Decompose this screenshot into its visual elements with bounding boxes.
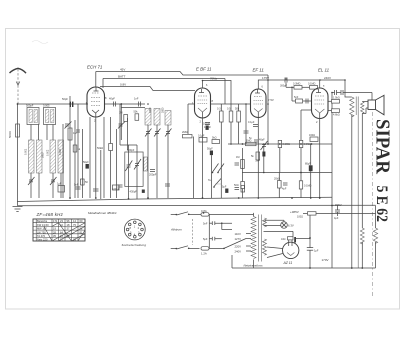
- wire top resistor row: [286, 78, 310, 88]
- wire mid columns: [111, 104, 138, 199]
- svg-text:1μF: 1μF: [314, 250, 319, 253]
- wire cathode riser: [309, 215, 311, 268]
- svg-text:1.2A: 1.2A: [201, 251, 207, 255]
- svg-text:5 E 62: 5 E 62: [373, 186, 390, 223]
- capacitor 40pF: [109, 97, 116, 107]
- resistor 50k mid: [109, 144, 113, 151]
- svg-text:160Ω: 160Ω: [309, 134, 315, 137]
- svg-text:0.5: 0.5: [227, 108, 231, 111]
- label 5000 coil: [42, 152, 45, 158]
- brand text 5E62: [373, 186, 390, 223]
- bus chassis: [18, 197, 333, 201]
- pilot lamp: [281, 220, 294, 228]
- fuse 0.8A: [200, 209, 254, 216]
- mains switch lower: [171, 246, 200, 250]
- resistor 0.1M top: [308, 83, 318, 90]
- resistor 30k: [97, 146, 103, 199]
- svg-text:240V: 240V: [235, 250, 242, 254]
- svg-text:500Ω: 500Ω: [8, 131, 12, 138]
- svg-text:50μF: 50μF: [83, 161, 89, 164]
- label EBF11: [196, 67, 212, 72]
- resistor 50k osc: [134, 111, 139, 121]
- svg-text:0.1MΩ: 0.1MΩ: [304, 185, 312, 188]
- wire column x63: [62, 124, 64, 198]
- wire transformer top: [345, 80, 352, 97]
- svg-text:50kΩ: 50kΩ: [97, 146, 103, 150]
- coil winding L5: [47, 140, 56, 173]
- capacitor bars mid2: [235, 188, 240, 190]
- resistor box mid: [241, 186, 245, 193]
- label +365V: [333, 203, 342, 207]
- svg-text:430pF: 430pF: [130, 190, 138, 194]
- svg-text:SIPAR: SIPAR: [372, 119, 394, 174]
- label 0.002 coil: [59, 148, 62, 155]
- capacitor 0.1 el: [341, 90, 343, 95]
- svg-text:5000: 5000: [42, 152, 45, 158]
- svg-text:LW 750: LW 750: [37, 230, 46, 234]
- svg-text:5nF: 5nF: [294, 96, 299, 99]
- tube ECH71: [86, 87, 108, 123]
- label +385V: [290, 210, 299, 214]
- resistor 0.3M lower: [299, 173, 311, 199]
- svg-text:5μF: 5μF: [203, 237, 208, 241]
- resistor 1k cathode: [73, 145, 81, 152]
- wire el11 left column: [301, 110, 312, 140]
- svg-text:1nF: 1nF: [134, 97, 139, 101]
- svg-text:127V: 127V: [235, 237, 242, 241]
- svg-text:2MΩ: 2MΩ: [182, 130, 188, 134]
- capacitor 100pF mid: [112, 185, 123, 191]
- resistor 2M: [182, 130, 192, 138]
- capacitor 80uF: [305, 162, 313, 171]
- wire column x90: [89, 117, 91, 198]
- box 4600: [328, 109, 340, 117]
- wire winding tap mid: [264, 231, 294, 236]
- wire ebf columns: [221, 104, 246, 144]
- capacitor 50uF dark: [83, 161, 89, 169]
- trimmer capacitor osc3: [165, 129, 172, 137]
- svg-text:100μF: 100μF: [203, 123, 211, 126]
- label pin el: [323, 85, 325, 88]
- mains switch upper: [171, 212, 200, 216]
- trimmer arrow left: [65, 122, 72, 129]
- wire EL11 bottom: [319, 119, 321, 199]
- voltage tap 220V: [235, 245, 252, 249]
- output transformer primary: [350, 97, 354, 117]
- wire ECH71 right: [105, 103, 146, 105]
- trimmer capacitor: [28, 177, 35, 185]
- bus ground: [18, 202, 376, 206]
- box screen resistor: [328, 97, 340, 104]
- wire el11 right column: [331, 93, 333, 269]
- wire osc columns: [148, 125, 168, 198]
- tube socket diagram: [124, 219, 145, 240]
- wire column x104: [103, 117, 105, 198]
- wire column x127.5: [127, 118, 129, 150]
- svg-text:0.1MΩ: 0.1MΩ: [308, 83, 316, 86]
- label ZF: [36, 212, 64, 217]
- output transformer core: [356, 97, 358, 269]
- wire lower rail: [242, 172, 332, 174]
- switch link dashed: [192, 219, 194, 245]
- svg-text:45V: 45V: [120, 68, 125, 72]
- svg-text:MW 187: MW 187: [37, 227, 47, 231]
- voltage tap 127V: [235, 237, 252, 241]
- wire heater upper: [265, 220, 284, 222]
- antenna: [10, 68, 27, 104]
- junction dots wire104: [17, 79, 346, 199]
- oscillator coil 3: [165, 111, 171, 126]
- svg-text:0.5MΩ: 0.5MΩ: [304, 143, 312, 146]
- svg-text:1.5kΩ: 1.5kΩ: [333, 97, 340, 100]
- wire input node: [18, 103, 88, 105]
- svg-text:4μF: 4μF: [334, 217, 339, 220]
- capacitor 10nF ef bottom: [249, 137, 258, 142]
- resistor 5k ef: [251, 152, 260, 160]
- capacitor 5nF mains1: [203, 214, 232, 225]
- svg-text:BATT: BATT: [118, 75, 126, 79]
- voltage tap 240V: [235, 250, 252, 254]
- label pin ef: [262, 86, 264, 89]
- power transformer secondary: [263, 218, 267, 255]
- resistor 0.3M: [217, 108, 223, 123]
- svg-text:0.2MΩ: 0.2MΩ: [283, 143, 291, 146]
- svg-text:50pF: 50pF: [62, 97, 68, 101]
- capacitor 300pF: [280, 78, 288, 88]
- svg-text:ECH 71: ECH 71: [87, 65, 103, 70]
- svg-text:1M: 1M: [119, 112, 122, 115]
- resistor 20k lower: [274, 173, 281, 199]
- svg-text:5kΩ: 5kΩ: [212, 137, 217, 140]
- resistor 50k: [235, 108, 240, 123]
- wire EF11 bottom: [257, 118, 259, 199]
- wire EBF11 bottom: [202, 118, 204, 198]
- wire column x82.5: [82, 129, 84, 198]
- bus bottom: [232, 255, 376, 268]
- svg-text:80μF: 80μF: [305, 162, 311, 165]
- capacitor 1uF: [57, 182, 65, 193]
- capacitor 100pF ebf: [204, 123, 212, 130]
- resistor hum balance: [281, 237, 293, 241]
- oscillator coil 2: [154, 109, 160, 126]
- coil box L1: [26, 104, 39, 125]
- svg-text:Metallrahmen 38kΩ/1: Metallrahmen 38kΩ/1: [88, 211, 117, 215]
- tube EF11: [251, 89, 267, 118]
- wire antenna lead down: [17, 104, 19, 202]
- svg-text:220V: 220V: [235, 245, 242, 249]
- faint pencil smudge: [32, 41, 48, 44]
- svg-text:Allstrom: Allstrom: [170, 228, 182, 232]
- capacitor 50uF dark2: [207, 148, 213, 156]
- capacitor gnd3: [165, 184, 170, 186]
- resistor 20k top: [293, 83, 302, 90]
- resistor 50ohm: [234, 173, 244, 199]
- field coil resistor: [360, 228, 364, 268]
- capacitor 10nF: [244, 131, 249, 133]
- svg-text:40pF: 40pF: [259, 139, 265, 142]
- svg-text:170V: 170V: [322, 258, 329, 262]
- capacitor 2nF dark: [256, 152, 266, 163]
- box 0.1uF: [198, 135, 207, 143]
- trimmer capacitor: [50, 177, 57, 185]
- wire x193.5 drop: [193, 137, 195, 199]
- svg-text:110V: 110V: [235, 232, 241, 236]
- label 2000 osc: [149, 107, 152, 113]
- wire cap junction right: [221, 222, 232, 229]
- svg-text:0.1μF: 0.1μF: [248, 121, 255, 124]
- coil winding L4: [37, 140, 43, 173]
- dashed fold line: [371, 112, 373, 296]
- wire x213.5 drop: [210, 155, 212, 198]
- speaker: [368, 95, 384, 115]
- label pin7 ebf: [206, 84, 208, 87]
- svg-text:0.3: 0.3: [217, 108, 221, 111]
- capacitor 50+50: [81, 179, 89, 185]
- voltage tap 110V: [235, 232, 252, 236]
- label Netztransform: [244, 264, 264, 268]
- svg-text:7.5V: 7.5V: [268, 98, 274, 102]
- resistor 1M osc: [119, 112, 128, 122]
- IF transformer 2: [125, 148, 147, 194]
- wire EL11 grid: [303, 99, 312, 104]
- svg-text:240V: 240V: [324, 76, 331, 80]
- svg-text:Netz 220: Netz 220: [37, 238, 48, 242]
- wire speaker feed: [332, 93, 372, 101]
- label AZ11: [283, 261, 293, 265]
- svg-text:Sockelschaltung: Sockelschaltung: [122, 243, 147, 247]
- label 170V: [322, 258, 329, 262]
- wire columns left: [31, 96, 78, 198]
- resistor 160ohm cathode: [309, 134, 318, 142]
- resistor bleeder right: [373, 206, 377, 269]
- wire bplus verticals: [243, 143, 311, 198]
- svg-text:4.6kΩ: 4.6kΩ: [333, 114, 340, 117]
- capacitor 1uF left gnd: [93, 189, 99, 191]
- svg-text:0.1μF: 0.1μF: [198, 135, 205, 138]
- svg-text:6.3V: 6.3V: [288, 224, 294, 228]
- svg-text:100Ω: 100Ω: [297, 216, 303, 219]
- tube EBF11: [192, 88, 214, 124]
- label EF11: [253, 68, 265, 73]
- label Sockelschaltung: [122, 243, 147, 247]
- bus 45V: [96, 68, 268, 76]
- capacitor 10pF: [134, 97, 141, 107]
- band switch lever 2: [213, 179, 221, 188]
- svg-text:Bereiche: Bereiche: [37, 219, 48, 223]
- svg-text:0.001: 0.001: [25, 148, 28, 155]
- resistor 0.5M: [227, 108, 233, 123]
- svg-text:TA 470: TA 470: [37, 234, 46, 238]
- svg-text:200pF: 200pF: [149, 173, 157, 177]
- capacitor 1uF az: [307, 248, 319, 253]
- resistor 50k h: [278, 140, 290, 147]
- tube EL11: [312, 88, 329, 124]
- svg-text:500pF: 500pF: [26, 104, 34, 108]
- svg-text:KW 13-50: KW 13-50: [37, 223, 49, 227]
- capacitor 5nF: [74, 183, 81, 190]
- svg-text:50μF: 50μF: [207, 148, 213, 151]
- svg-text:1μF: 1μF: [57, 182, 62, 186]
- wire column x75: [74, 120, 76, 198]
- svg-text:10Ω: 10Ω: [281, 238, 286, 241]
- wire EBF11 grid left: [188, 103, 195, 105]
- svg-text:1M: 1M: [236, 156, 239, 159]
- power transformer primary: [251, 213, 256, 268]
- power transformer core: [259, 215, 262, 262]
- box 10nF grid: [292, 87, 303, 103]
- capacitor 4uF lower: [282, 183, 288, 191]
- svg-text:0.8V: 0.8V: [120, 83, 126, 87]
- coil box L2: [43, 104, 56, 125]
- resistor 3k v: [259, 139, 268, 151]
- coil winding L3: [25, 140, 35, 173]
- capacitor 100uF dark: [203, 123, 211, 130]
- band switch lever 1: [208, 164, 224, 183]
- svg-text:EF 11: EF 11: [253, 68, 265, 73]
- label 3000 osc: [162, 107, 165, 113]
- wire EBF11 right: [211, 103, 252, 105]
- label Allstrom: [170, 228, 182, 232]
- svg-text:40pF: 40pF: [109, 97, 115, 101]
- resistor 0.1M h: [299, 140, 311, 147]
- capacitor 4uF el: [335, 90, 337, 95]
- resistor 100ohm rail: [297, 212, 376, 219]
- ground: [13, 207, 23, 212]
- wire osc link: [121, 104, 145, 140]
- svg-text:70Ma: 70Ma: [210, 77, 217, 81]
- svg-text:0.005: 0.005: [43, 104, 50, 108]
- label ECH71: [87, 65, 103, 70]
- resistor 1M h: [246, 139, 257, 145]
- capacitor dark az: [294, 237, 296, 243]
- output transformer secondary: [361, 102, 364, 114]
- svg-text:5μF: 5μF: [222, 186, 227, 189]
- trimmer arrow right: [118, 122, 125, 129]
- svg-text:E BF 11: E BF 11: [196, 67, 212, 72]
- svg-text:AZ 11: AZ 11: [283, 261, 293, 265]
- svg-text:5nF: 5nF: [203, 221, 208, 225]
- wire cathode tap: [296, 238, 310, 240]
- svg-text:Netztransform.: Netztransform.: [244, 264, 264, 268]
- capacitor 5uF mains2: [203, 223, 222, 248]
- resistor 1M v: [236, 156, 244, 169]
- brand text SIPAR: [372, 119, 394, 174]
- svg-text:2000: 2000: [149, 107, 152, 113]
- svg-text:+385V: +385V: [290, 210, 299, 214]
- trimmer capacitor osc1: [145, 129, 152, 137]
- wire EL11 anode: [319, 80, 321, 88]
- svg-text:100pF: 100pF: [112, 187, 120, 191]
- resistor 1M: [68, 128, 77, 140]
- wire batt drop: [224, 79, 226, 105]
- rectifier AZ11: [267, 240, 299, 259]
- oscillator coil 1: [145, 109, 151, 126]
- capacitor 0.1uF ef: [248, 121, 258, 127]
- wire rail right: [315, 212, 317, 214]
- svg-text:0.3MΩ: 0.3MΩ: [293, 83, 301, 86]
- coil winding L6: [58, 140, 64, 173]
- capacitor 100pF: [76, 130, 80, 132]
- wire EBF drop: [267, 75, 269, 144]
- box 5k: [212, 137, 220, 144]
- capacitor 5uF dark3: [222, 186, 228, 193]
- wire column x116.5: [116, 129, 118, 198]
- wire x221.5 drop: [220, 144, 222, 198]
- wire ECH71 anode to top bus: [95, 72, 97, 88]
- label Metallrahmen: [88, 211, 117, 215]
- svg-text:0.003: 0.003: [59, 148, 62, 155]
- wire speaker leads: [362, 102, 368, 114]
- label EL11: [318, 68, 330, 73]
- capacitor 4uF rail: [334, 206, 340, 221]
- capacitor 200pF: [149, 170, 157, 177]
- wire EBF11 anode: [203, 77, 232, 112]
- wire EF11 anode: [258, 76, 345, 89]
- svg-text:3000: 3000: [162, 107, 165, 113]
- fuse 1.2A: [201, 247, 224, 256]
- table: [33, 219, 85, 241]
- capacitor bars mid1: [235, 163, 240, 165]
- svg-text:EL 11: EL 11: [318, 68, 330, 73]
- wire ECH71 bottom: [95, 117, 97, 198]
- capacitor 50pF input: [62, 97, 73, 107]
- wire heater lower: [264, 225, 281, 227]
- wire transformer bottom drops: [352, 114, 363, 269]
- svg-text:171: 171: [53, 219, 58, 223]
- bus 0.4V: [103, 75, 225, 89]
- svg-text:4μF: 4μF: [282, 188, 287, 191]
- wire selector: [223, 239, 246, 250]
- svg-text:50Ω: 50Ω: [234, 184, 239, 187]
- B+ resistor row: [228, 143, 332, 145]
- trimmer capacitor osc2: [154, 129, 161, 137]
- svg-text:0.002: 0.002: [47, 149, 50, 156]
- capacitor 0.1 gnd: [113, 185, 120, 190]
- svg-text:ZF=468 kHz: ZF=468 kHz: [36, 212, 64, 217]
- label 7.5V: [268, 98, 274, 102]
- bus 0.8V: [100, 83, 195, 91]
- resistor 500ohm: [8, 124, 20, 138]
